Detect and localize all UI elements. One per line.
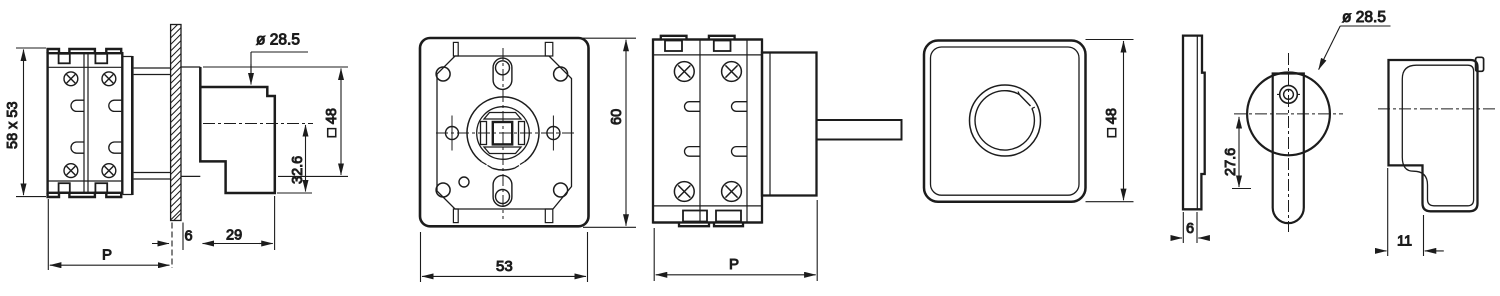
inner vertical division lines: [84, 54, 88, 193]
shaft bracket right: [519, 122, 525, 145]
bezel inner square: [931, 47, 1080, 195]
shaft bracket bottom: [484, 147, 521, 154]
front block: [762, 53, 817, 196]
inner vertical division lines: [700, 41, 747, 222]
dimension 6: [1171, 212, 1210, 243]
central boss outer circle with notches: [467, 97, 539, 170]
svg-text:ø 28.5: ø 28.5: [256, 32, 300, 49]
small hole bottom-left: [459, 177, 469, 187]
threaded boss between body and panel: [134, 68, 171, 179]
switch body outline: [653, 36, 762, 226]
svg-text:P: P: [729, 256, 739, 273]
corner hole bottom-right: [554, 183, 568, 197]
bezel behind knob: [181, 67, 200, 176]
svg-text:P: P: [102, 247, 112, 264]
svg-text:□ 48: □ 48: [324, 108, 340, 137]
top oval hole: [493, 58, 512, 89]
svg-text:60: 60: [609, 109, 625, 125]
screw C: [674, 182, 694, 202]
svg-text:ø 28.5: ø 28.5: [1342, 9, 1386, 26]
dimension 53: [421, 232, 588, 282]
svg-text:11: 11: [1397, 234, 1412, 250]
dimension 32.6: [277, 125, 312, 193]
clip notches bottom: [59, 183, 70, 193]
square shaft hole: [493, 122, 512, 144]
svg-text:53: 53: [496, 258, 513, 275]
svg-text:27.6: 27.6: [1223, 148, 1239, 176]
dimension 58 x 53: [16, 48, 46, 197]
corner hole top-right: [554, 67, 568, 81]
centerline: [1378, 108, 1497, 110]
dimension 29: [203, 196, 275, 250]
bottom oval hole: [493, 175, 512, 206]
screw D: [102, 164, 116, 178]
knob disc: [1247, 73, 1330, 156]
svg-text:29: 29: [226, 228, 242, 244]
knob side outline: [1389, 60, 1478, 211]
screw B: [722, 62, 742, 82]
svg-text:6: 6: [185, 229, 193, 245]
handle bar: [1273, 74, 1304, 224]
inner octagon contour: [437, 56, 572, 209]
dimension square 48: [1086, 40, 1134, 202]
screw: [1280, 86, 1298, 104]
mounting flange: [131, 56, 134, 195]
centerline: [203, 123, 313, 125]
dimension P: [654, 200, 817, 281]
dimension 6 (panel): [152, 223, 183, 269]
bezel outer square: [924, 41, 1086, 202]
dimension 60: [583, 38, 636, 227]
bottom slot vents: [453, 209, 458, 223]
centerlines: [436, 132, 575, 134]
svg-text:□ 48: □ 48: [1104, 108, 1120, 137]
plate outline: [1183, 36, 1205, 210]
screw D: [722, 182, 742, 202]
clip notches bottom: [683, 211, 707, 222]
side hole left: [446, 127, 459, 140]
shaft: [817, 120, 902, 140]
clip notches top: [665, 41, 682, 52]
knob (side profile): [200, 67, 274, 193]
side hole right: [547, 127, 560, 140]
slots: [71, 100, 122, 153]
dimension 11: [1376, 168, 1444, 256]
top slot vents: [453, 42, 458, 56]
shaft bracket top: [484, 113, 521, 120]
plate face line: [1196, 37, 1198, 209]
dimension square 48 (side): [203, 67, 348, 176]
screw A: [64, 72, 78, 86]
dimension diameter 28.5 leader: [251, 52, 308, 85]
outer square body: [420, 38, 589, 226]
svg-text:6: 6: [1186, 221, 1194, 237]
screw C: [64, 164, 78, 178]
screw A: [674, 62, 694, 82]
clip tab top-right: [1476, 57, 1484, 71]
opening inner circle with notches: [975, 91, 1034, 150]
svg-text:32.6: 32.6: [290, 156, 306, 184]
dimension 27.6: [1232, 117, 1251, 189]
corner hole bottom-left: [436, 183, 450, 197]
corner hole top-left: [436, 67, 450, 81]
opening outer circle: [970, 85, 1041, 156]
inner horizontal lines: [654, 55, 761, 206]
dimension diameter 28.5 leader: [1319, 26, 1391, 70]
dimension P: [48, 199, 169, 270]
centerlines: [1234, 113, 1343, 115]
shaft bracket left: [481, 122, 487, 145]
panel (hatched): [171, 25, 181, 221]
switch body outline (side): [48, 49, 123, 197]
screw B: [102, 72, 116, 86]
svg-text:58 x 53: 58 x 53: [5, 101, 21, 149]
inner horizontal lines: [49, 67, 122, 181]
knob side inner line: [1402, 65, 1473, 206]
central inner circle: [477, 107, 530, 160]
slots: [684, 102, 747, 157]
clip notches top: [59, 54, 70, 64]
